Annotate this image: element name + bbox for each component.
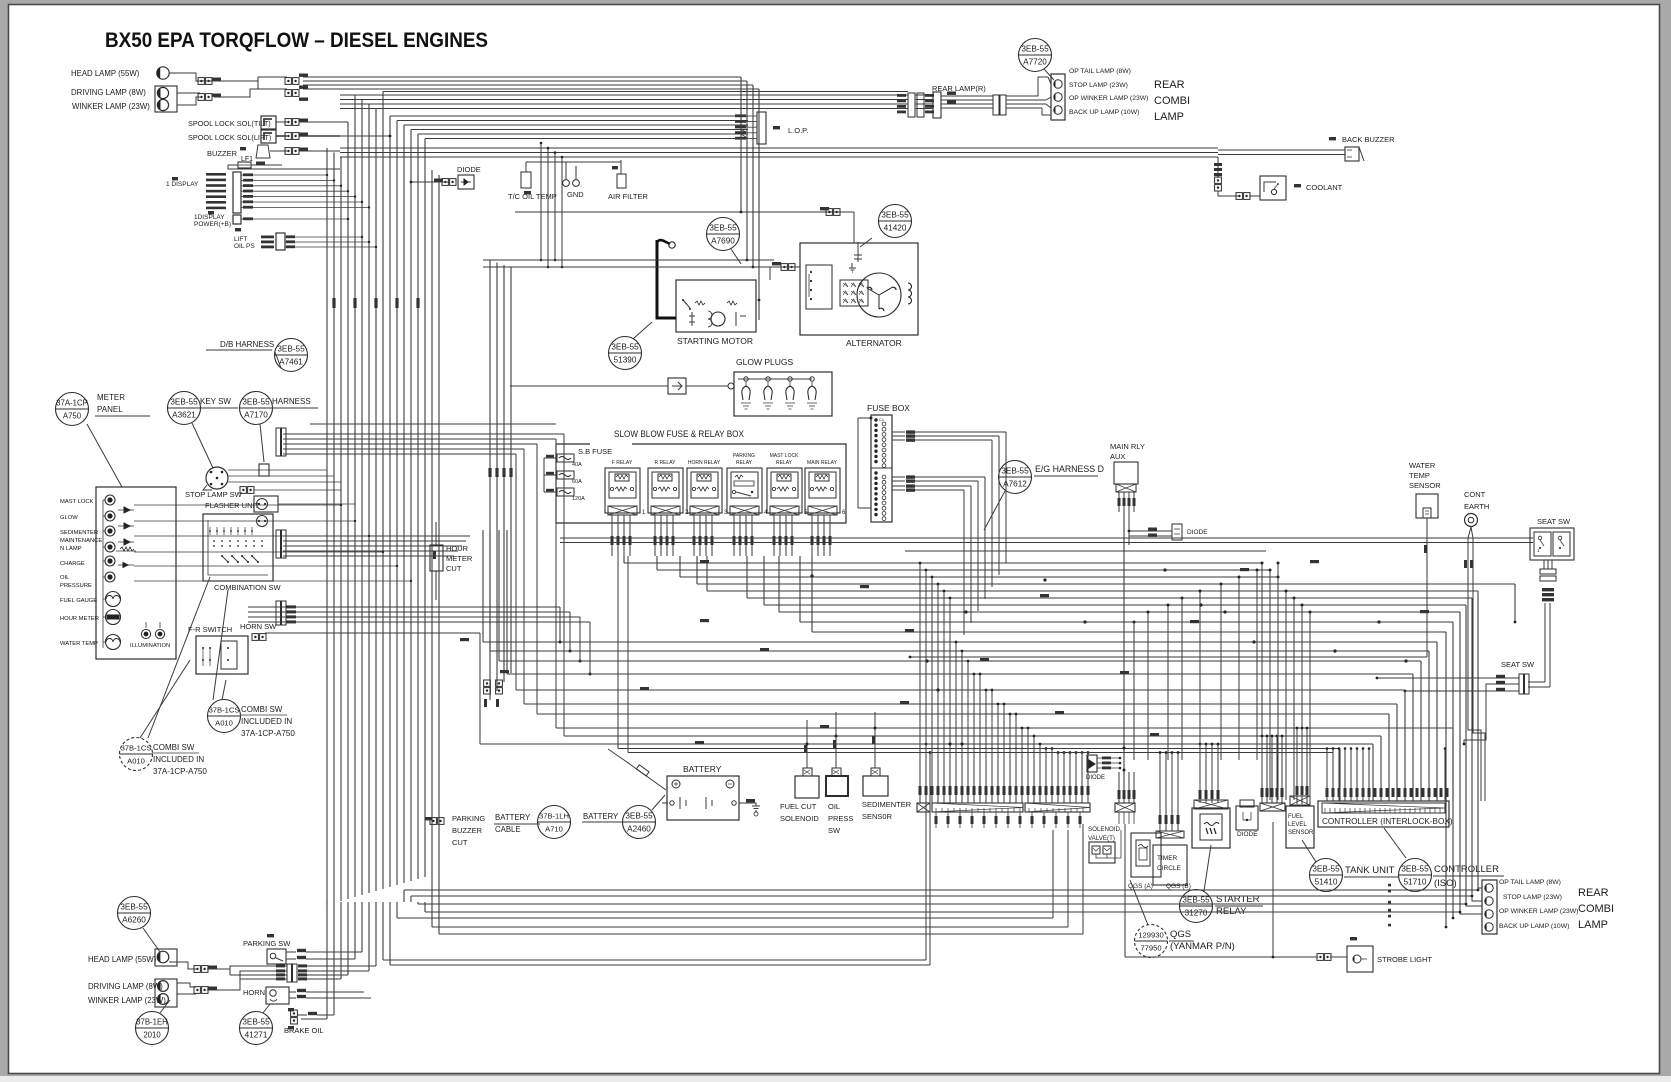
svg-text:REAR: REAR bbox=[1578, 887, 1609, 899]
air filter connector bbox=[617, 174, 626, 188]
svg-text:SENSOR: SENSOR bbox=[1288, 830, 1314, 836]
svg-text:3EB-55: 3EB-55 bbox=[120, 903, 148, 912]
front lamp 2 box bbox=[155, 979, 177, 1007]
wire to glow plugs bbox=[686, 385, 728, 387]
glow starter vertical quad bbox=[489, 260, 491, 700]
svg-text:BUZZER: BUZZER bbox=[452, 826, 483, 835]
svg-text:SPOOL LOCK SOL(TILT): SPOOL LOCK SOL(TILT) bbox=[188, 119, 271, 128]
fuel level feeds bbox=[1296, 728, 1298, 804]
callout 3EB-55 A7612 bbox=[999, 461, 1032, 494]
1display power connector bbox=[233, 215, 241, 224]
svg-text:DIODE: DIODE bbox=[1187, 529, 1208, 536]
svg-text:HOUR METER: HOUR METER bbox=[60, 616, 99, 622]
svg-text:COMBI: COMBI bbox=[1154, 95, 1190, 107]
svg-text:A2460: A2460 bbox=[627, 825, 651, 834]
fuel level sensor bbox=[1286, 806, 1314, 848]
svg-text:BACK UP LAMP (10W): BACK UP LAMP (10W) bbox=[1499, 923, 1569, 930]
callout 3EB-55 A7461 leader bbox=[275, 352, 281, 368]
svg-text:OP TAIL LAMP (8W): OP TAIL LAMP (8W) bbox=[1499, 879, 1561, 886]
svg-text:R RELAY: R RELAY bbox=[654, 460, 676, 466]
svg-text:FLASHER UNIT: FLASHER UNIT bbox=[205, 501, 260, 510]
spool sol wires + connectors bbox=[276, 121, 287, 123]
horn sw connector bbox=[252, 634, 258, 641]
svg-text:WINKER LAMP (23W): WINKER LAMP (23W) bbox=[72, 102, 150, 111]
svg-text:A7690: A7690 bbox=[711, 237, 735, 246]
junction connectors x290 bbox=[285, 78, 291, 85]
svg-text:37B-1EH: 37B-1EH bbox=[136, 1018, 168, 1027]
fuse box wires right bbox=[892, 431, 905, 433]
callout 3EB-55 41420 bbox=[879, 205, 912, 238]
line 551 partial bbox=[905, 550, 1266, 552]
svg-text:COMBI: COMBI bbox=[1578, 903, 1614, 915]
fuse box wires right staircase down bbox=[915, 431, 1006, 433]
lift oil ps connector bbox=[261, 236, 274, 239]
connector driving bbox=[198, 94, 204, 101]
lamp rows to trunk corners bbox=[306, 965, 376, 967]
svg-text:3EB-55: 3EB-55 bbox=[242, 1018, 270, 1027]
svg-text:129930: 129930 bbox=[1138, 931, 1163, 940]
svg-text:(YANMAR P/N): (YANMAR P/N) bbox=[1170, 941, 1235, 952]
meter panel internal wires bbox=[102, 500, 104, 648]
sensor risers to band bbox=[806, 720, 808, 744]
svg-text:ILLUMINATION: ILLUMINATION bbox=[130, 643, 170, 649]
svg-text:HARNESS: HARNESS bbox=[272, 397, 311, 406]
svg-text:OP WINKER LAMP (23W): OP WINKER LAMP (23W) bbox=[1069, 95, 1148, 102]
svg-text:51710: 51710 bbox=[1404, 878, 1427, 887]
svg-text:RELAY: RELAY bbox=[776, 460, 793, 466]
svg-text:LAMP: LAMP bbox=[1154, 111, 1184, 123]
cont earth symbol bbox=[1465, 514, 1478, 527]
timer circle box bbox=[1153, 845, 1187, 885]
svg-text:RELAY: RELAY bbox=[736, 460, 753, 466]
svg-text:31270: 31270 bbox=[1185, 909, 1208, 918]
callout 37A-1CP A750 bbox=[56, 393, 89, 426]
svg-text:L.O.P.: L.O.P. bbox=[788, 126, 808, 135]
main rly aux long drop bbox=[1123, 512, 1125, 790]
lop connector bbox=[757, 112, 766, 144]
svg-text:ALTERNATOR: ALTERNATOR bbox=[846, 338, 902, 348]
mid connector bar small bbox=[1156, 831, 1184, 838]
combination sw right edge connector columns bbox=[276, 428, 281, 456]
svg-text:SLOW BLOW FUSE & RELAY BOX: SLOW BLOW FUSE & RELAY BOX bbox=[614, 429, 744, 439]
relay MAIN RELAY bbox=[805, 460, 846, 516]
f-r switch box bbox=[196, 636, 248, 674]
ignition connector bbox=[781, 264, 787, 271]
top bundle label blobs bbox=[947, 92, 956, 95]
svg-text:3EB-55: 3EB-55 bbox=[611, 343, 639, 352]
1display wires to trunk bbox=[253, 174, 327, 176]
svg-text:A7170: A7170 bbox=[244, 411, 268, 420]
svg-text:2010: 2010 bbox=[143, 1031, 161, 1040]
fuse box left wire bbox=[858, 418, 871, 508]
svg-text:37A-1CP-A750: 37A-1CP-A750 bbox=[241, 729, 295, 738]
svg-text:FUEL CUT: FUEL CUT bbox=[780, 802, 817, 811]
head lamp 2 symbol bbox=[155, 949, 177, 966]
meter panel box bbox=[96, 487, 176, 659]
relay HORN RELAY bbox=[687, 460, 728, 516]
controller extra feeds bbox=[1326, 749, 1328, 802]
strip B risers up to band bbox=[1133, 622, 1135, 760]
svg-text:3EB-55: 3EB-55 bbox=[277, 345, 305, 354]
svg-text:DRIVING LAMP (8W): DRIVING LAMP (8W) bbox=[88, 982, 163, 991]
svg-text:MAIN RLY: MAIN RLY bbox=[1110, 442, 1145, 451]
svg-text:LIFT: LIFT bbox=[234, 236, 247, 243]
svg-text:A010: A010 bbox=[215, 719, 233, 728]
svg-text:CONT: CONT bbox=[1464, 490, 1486, 499]
harness connector small bbox=[259, 464, 269, 476]
callout 3EB-55 A7461 bbox=[275, 339, 308, 372]
callout 3EB-55 A6260 bbox=[118, 897, 151, 930]
seat sw wires down bbox=[1543, 560, 1545, 569]
callout 37B-1EH 2010 bbox=[136, 1012, 169, 1045]
svg-text:HEAD LAMP (55W): HEAD LAMP (55W) bbox=[71, 69, 140, 78]
brake oil connector bbox=[291, 1010, 298, 1016]
stop lamp flasher wires right bbox=[253, 489, 341, 491]
svg-text:HORN RELAY: HORN RELAY bbox=[688, 460, 721, 466]
starter relay 2 block bbox=[1192, 808, 1230, 848]
svg-text:INCLUDED IN: INCLUDED IN bbox=[241, 717, 292, 726]
svg-text:VALVE(T): VALVE(T) bbox=[1088, 835, 1115, 842]
central vertical drops onto strips bbox=[919, 563, 921, 803]
svg-text:60A: 60A bbox=[572, 479, 582, 485]
svg-text:SEAT SW: SEAT SW bbox=[1501, 660, 1535, 669]
strip right feeds bbox=[1261, 736, 1263, 803]
svg-text:A010: A010 bbox=[127, 757, 145, 766]
brake oil wires bbox=[298, 1014, 307, 1016]
svg-text:HORN SW: HORN SW bbox=[240, 622, 277, 631]
svg-text:MAIN RELAY: MAIN RELAY bbox=[807, 460, 838, 466]
combination sw box bbox=[203, 514, 273, 581]
svg-text:S.B FUSE: S.B FUSE bbox=[578, 447, 612, 456]
relay pin wires below bbox=[611, 515, 613, 536]
svg-text:F RELAY: F RELAY bbox=[612, 460, 633, 466]
svg-text:SEDIMENTER: SEDIMENTER bbox=[60, 530, 98, 536]
horizontal pair to alternator bbox=[483, 259, 774, 261]
svg-text:SOLENOID: SOLENOID bbox=[1088, 826, 1121, 833]
below-strip stubs bbox=[935, 812, 937, 828]
glow plugs box bbox=[734, 372, 832, 416]
fuse box body bbox=[871, 415, 892, 522]
svg-text:METER: METER bbox=[97, 393, 125, 402]
svg-text:CONTROLLER (INTERLOCK-BOX): CONTROLLER (INTERLOCK-BOX) bbox=[1322, 817, 1453, 826]
svg-text:1 DISPLAY: 1 DISPLAY bbox=[166, 181, 199, 188]
svg-text:TIMER: TIMER bbox=[1157, 855, 1178, 862]
fuel gauge symbol bbox=[106, 592, 121, 607]
svg-text:3EB-55: 3EB-55 bbox=[1312, 865, 1340, 874]
gnd circles bbox=[563, 180, 570, 187]
svg-text:DIODE: DIODE bbox=[1237, 831, 1258, 838]
band left risers lower lines bbox=[482, 530, 484, 642]
svg-text:PARKING: PARKING bbox=[733, 453, 755, 459]
parking buzzer cut connectors bbox=[484, 680, 491, 686]
callout 37B-1LH A710 bbox=[538, 806, 571, 839]
svg-text:3EB-55: 3EB-55 bbox=[625, 812, 653, 821]
svg-text:C1: C1 bbox=[879, 417, 885, 422]
svg-text:AUX: AUX bbox=[1110, 452, 1125, 461]
svg-text:77950: 77950 bbox=[1140, 944, 1161, 953]
top bundle lines mid-level to LOP bbox=[390, 115, 748, 117]
seat sw 2 left feed lines bbox=[1377, 677, 1519, 679]
svg-text:EARTH: EARTH bbox=[1464, 502, 1489, 511]
strobe wires bbox=[1317, 954, 1323, 961]
lop feed stubs bbox=[741, 115, 748, 117]
combi sw callout 2 dashed bbox=[140, 660, 190, 738]
alternator rectifier grid bbox=[843, 283, 848, 287]
rear lamp connector 2 bbox=[993, 95, 999, 115]
svg-text:OIL: OIL bbox=[60, 575, 70, 581]
battery box bbox=[667, 776, 739, 820]
svg-text:STARTING MOTOR: STARTING MOTOR bbox=[677, 336, 753, 346]
svg-text:DIODE: DIODE bbox=[1086, 775, 1105, 781]
battery fuse link diagonal bbox=[739, 802, 745, 804]
top horizontal bundle to rear lamp bbox=[383, 91, 908, 93]
svg-text:HEAD LAMP (55W): HEAD LAMP (55W) bbox=[88, 955, 157, 964]
svg-text:3EB-55: 3EB-55 bbox=[709, 224, 737, 233]
svg-text:INCLUDED IN: INCLUDED IN bbox=[153, 755, 204, 764]
horn sw wire bbox=[265, 632, 480, 634]
meter panel lamps bbox=[105, 495, 115, 505]
callout 3EB-55 41271 bbox=[240, 1012, 273, 1045]
svg-text:BACK BUZZER: BACK BUZZER bbox=[1342, 135, 1395, 144]
illumination lamps bbox=[141, 629, 150, 638]
battery wire labels bbox=[746, 799, 755, 802]
1 display connector block bbox=[233, 172, 241, 213]
meter panel outputs to trunk bbox=[176, 504, 341, 506]
junction to coolant bbox=[1217, 157, 1219, 178]
svg-text:GND: GND bbox=[567, 190, 584, 199]
timer area feeds below bbox=[1159, 753, 1161, 832]
callout 3EB-55 A7720 bbox=[1019, 39, 1052, 72]
callout 37B-1CS A010 bbox=[208, 700, 241, 733]
alternator cap bbox=[854, 252, 862, 262]
svg-text:WATER: WATER bbox=[1409, 461, 1436, 470]
relay R RELAY bbox=[648, 460, 689, 516]
starter relay block bbox=[1131, 833, 1161, 877]
back buzzer label bbox=[1329, 137, 1336, 140]
gnd airfilter tc oil temp header bbox=[526, 161, 621, 163]
svg-text:51390: 51390 bbox=[614, 356, 637, 365]
seat sw 2 inline connector bbox=[1519, 674, 1524, 694]
svg-text:SENS0R: SENS0R bbox=[862, 812, 893, 821]
head lamp HL1 bbox=[157, 67, 169, 79]
keysw wires right bbox=[228, 469, 327, 471]
svg-text:37B-1LH: 37B-1LH bbox=[539, 812, 569, 821]
svg-text:MAST LOCK: MAST LOCK bbox=[770, 453, 799, 459]
starter relay connector feeds bbox=[1199, 744, 1201, 803]
svg-text:A3621: A3621 bbox=[172, 411, 196, 420]
glow relay connector bbox=[668, 378, 686, 394]
svg-text:A7720: A7720 bbox=[1023, 58, 1047, 67]
combination sw internals bbox=[257, 516, 268, 527]
inline lamp connector column bbox=[287, 964, 292, 982]
svg-text:COMBI SW: COMBI SW bbox=[241, 705, 283, 714]
svg-text:AIR FILTER: AIR FILTER bbox=[608, 192, 648, 201]
svg-text:STOP LAMP (23W): STOP LAMP (23W) bbox=[1503, 894, 1562, 901]
parking sw wires bbox=[286, 951, 296, 953]
rear combi 2 wire jogs to connector bbox=[1478, 888, 1482, 890]
diode small above strips bbox=[1087, 755, 1097, 772]
combination sw bundle lower bbox=[283, 535, 470, 537]
rear combi lamp 2 connector bbox=[1482, 880, 1497, 934]
key switch symbol bbox=[206, 467, 228, 489]
flasher unit symbol bbox=[254, 496, 278, 512]
svg-text:KEY SW: KEY SW bbox=[200, 397, 231, 406]
rear combi lamp connector bbox=[1051, 74, 1065, 120]
LF1 fuse bbox=[238, 162, 251, 168]
relay PARKING bbox=[727, 453, 768, 516]
sb fuses bbox=[557, 454, 574, 462]
meter panel outputs right bbox=[134, 504, 176, 506]
svg-text:CABLE: CABLE bbox=[495, 825, 521, 834]
extra trunk pair right bbox=[431, 170, 433, 927]
svg-text:A7461: A7461 bbox=[279, 358, 303, 367]
svg-text:BX50 EPA TORQFLOW – DIESEL ENG: BX50 EPA TORQFLOW – DIESEL ENGINES bbox=[105, 29, 488, 52]
svg-text:A750: A750 bbox=[63, 412, 82, 421]
main horizontal band lines bbox=[624, 562, 1262, 564]
mid staircase drops from band bbox=[1261, 563, 1263, 800]
alternator top wires bbox=[853, 212, 855, 243]
svg-text:40A: 40A bbox=[572, 462, 582, 468]
svg-text:A6260: A6260 bbox=[122, 916, 146, 925]
svg-text:N LAMP: N LAMP bbox=[60, 546, 82, 552]
seat sw connector mid bbox=[1540, 569, 1556, 574]
battery cells bbox=[680, 797, 712, 809]
seat connector mid-left L feed bbox=[1464, 684, 1519, 744]
main rly aux box bbox=[1114, 462, 1138, 484]
lift oil ps wires to trunk bbox=[295, 236, 362, 238]
svg-text:E/G HARNESS D: E/G HARNESS D bbox=[1035, 464, 1104, 474]
callout 3EB-55 A3621 bbox=[168, 392, 201, 425]
svg-text:OP WINKER LAMP (23W): OP WINKER LAMP (23W) bbox=[1499, 908, 1578, 915]
svg-text:37B-1CS: 37B-1CS bbox=[209, 706, 240, 715]
wires top bundle to rear lamp bbox=[340, 94, 908, 96]
svg-text:3EB-55: 3EB-55 bbox=[242, 398, 270, 407]
jog blobs near 1390 bbox=[1388, 884, 1391, 887]
long horizontals to rear combi lamp 2 bbox=[404, 889, 1478, 891]
svg-text:HORN: HORN bbox=[243, 988, 265, 997]
controller callout bbox=[1384, 828, 1406, 858]
alternator internals bbox=[857, 273, 901, 317]
svg-text:SEAT SW: SEAT SW bbox=[1537, 517, 1571, 526]
svg-text:TANK UNIT: TANK UNIT bbox=[1345, 865, 1395, 876]
svg-text:PRESS: PRESS bbox=[828, 814, 853, 823]
bottom of trunk corners bbox=[326, 902, 328, 1019]
svg-text:OIL PS: OIL PS bbox=[234, 243, 255, 250]
relay F RELAY bbox=[605, 460, 646, 516]
diode1 box bbox=[458, 175, 474, 189]
callout 129930 77950 bbox=[1135, 925, 1168, 958]
svg-text:CUT: CUT bbox=[446, 564, 462, 573]
strobe light feeds long pair bbox=[383, 959, 926, 961]
back buzzer connector bbox=[1345, 147, 1359, 161]
svg-text:OP TAIL LAMP (8W): OP TAIL LAMP (8W) bbox=[1069, 68, 1131, 75]
svg-text:D/B HARNESS: D/B HARNESS bbox=[220, 340, 274, 349]
svg-text:HOUR: HOUR bbox=[446, 544, 469, 553]
svg-text:51410: 51410 bbox=[1315, 878, 1338, 887]
svg-text:SOLENOID: SOLENOID bbox=[780, 814, 819, 823]
mid-length bottom lines turning up bbox=[397, 917, 1053, 919]
bottom connector long strip 1 bbox=[932, 803, 1023, 812]
two extra low band lines bbox=[618, 748, 1340, 750]
svg-text:STOP LAMP (23W): STOP LAMP (23W) bbox=[1069, 82, 1128, 89]
svg-text:POWER(+B): POWER(+B) bbox=[194, 221, 231, 228]
svg-text:1DISPLAY: 1DISPLAY bbox=[194, 214, 225, 221]
strobe light bbox=[1350, 937, 1357, 940]
svg-text:QGS: QGS bbox=[1170, 929, 1191, 940]
svg-text:CIRCLE: CIRCLE bbox=[1157, 865, 1182, 872]
buzzer symbol bbox=[256, 145, 270, 158]
lamp wires bottom bbox=[169, 962, 196, 969]
svg-text:MAST LOCK: MAST LOCK bbox=[60, 499, 94, 505]
svg-text:GLOW: GLOW bbox=[60, 515, 78, 521]
stop lamp sw connector bbox=[240, 487, 246, 494]
svg-text:QGS (B): QGS (B) bbox=[1166, 883, 1191, 890]
lop elbow verticals down to alternator pair bbox=[540, 143, 542, 260]
svg-text:BATTERY: BATTERY bbox=[495, 813, 531, 822]
callout 3EB-55 A7690 bbox=[707, 218, 740, 251]
callout 3EB-55 51710 bbox=[1399, 859, 1432, 892]
svg-text:COMBINATION SW: COMBINATION SW bbox=[214, 583, 281, 592]
alternator ground bbox=[849, 263, 856, 272]
seat wires down to inline connector bbox=[1544, 603, 1546, 682]
battery ground bbox=[745, 803, 756, 806]
front lamp unit box bbox=[155, 86, 177, 112]
svg-text:DRIVING LAMP (8W): DRIVING LAMP (8W) bbox=[71, 88, 146, 97]
water temp sensor box bbox=[1416, 494, 1438, 518]
svg-text:STROBE LIGHT: STROBE LIGHT bbox=[1377, 955, 1432, 964]
hour meter symbol bbox=[106, 610, 121, 625]
svg-text:BUZZER: BUZZER bbox=[207, 149, 238, 158]
svg-text:37A-1CP-A750: 37A-1CP-A750 bbox=[153, 767, 207, 776]
svg-text:37B-1CS: 37B-1CS bbox=[121, 744, 152, 753]
svg-text:PARKING SW: PARKING SW bbox=[243, 939, 291, 948]
bottom connector strip right bbox=[1260, 803, 1285, 811]
seat sw wire blobs bbox=[1542, 588, 1554, 591]
svg-text:DIODE: DIODE bbox=[457, 165, 481, 174]
svg-text:41420: 41420 bbox=[884, 224, 907, 233]
callout 3EB-55 A2460 bbox=[623, 806, 656, 839]
callout 3EB-55 51390 bbox=[609, 337, 642, 370]
combi sw callout 1 bbox=[222, 680, 226, 700]
svg-text:FUSE BOX: FUSE BOX bbox=[867, 403, 910, 413]
alternator box bbox=[800, 243, 918, 335]
relay box outer bbox=[556, 444, 846, 523]
svg-text:3EB-55: 3EB-55 bbox=[881, 211, 909, 220]
svg-text:3EB-55: 3EB-55 bbox=[1021, 45, 1049, 54]
wires head lamp to trunk bbox=[169, 73, 214, 81]
callout 3EB-55 51410 bbox=[1310, 859, 1343, 892]
svg-text:FUEL: FUEL bbox=[1288, 814, 1304, 820]
wires to junction area bbox=[214, 77, 287, 81]
stop lamp extra bundle line bbox=[310, 423, 556, 425]
svg-text:A7612: A7612 bbox=[1003, 480, 1027, 489]
band left risers from relay area bbox=[623, 556, 625, 563]
left vertical trunk bundle with elbow tops bbox=[326, 148, 328, 905]
svg-text:T/C OIL TEMP: T/C OIL TEMP bbox=[508, 192, 557, 201]
svg-text:PARKING: PARKING bbox=[452, 814, 485, 823]
spool lock sol lift symbol bbox=[261, 130, 276, 143]
combination sw output bundle right upper bbox=[283, 433, 564, 435]
svg-text:TEMP: TEMP bbox=[1409, 471, 1430, 480]
relay MAST LOCK bbox=[767, 453, 808, 516]
svg-text:REAR: REAR bbox=[1154, 79, 1185, 91]
spool lock sol tilt symbol bbox=[261, 116, 276, 129]
svg-text:WATER TEMP: WATER TEMP bbox=[60, 641, 98, 647]
fr switch outputs right bundle bbox=[248, 606, 560, 608]
svg-text:BATTERY: BATTERY bbox=[583, 812, 619, 821]
bottom connector strip small xbox bbox=[917, 803, 930, 812]
svg-text:COMBI SW: COMBI SW bbox=[153, 743, 195, 752]
